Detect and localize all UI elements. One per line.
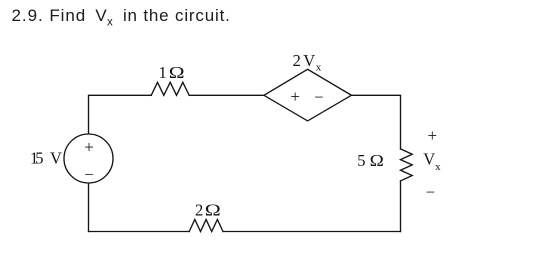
- svg-text:−: −: [426, 182, 435, 201]
- wire bottom right segment: [223, 231, 401, 233]
- svg-text:V: V: [423, 150, 435, 169]
- svg-text:−: −: [314, 88, 323, 107]
- svg-text:+: +: [84, 138, 94, 157]
- svg-text:x: x: [435, 161, 441, 173]
- wire top-right segment: [351, 95, 400, 149]
- svg-text:x: x: [316, 61, 322, 73]
- resistor R3 2-ohm zigzag: [189, 220, 223, 232]
- dependent source U1 diamond: [264, 69, 352, 121]
- svg-text:−: −: [84, 165, 93, 184]
- svg-text:1Ω: 1Ω: [159, 63, 185, 82]
- resistor R2 5-ohm zigzag: [401, 149, 413, 181]
- svg-text:15V: 15V: [30, 149, 62, 168]
- wire right lower segment: [400, 181, 402, 232]
- wire top middle segment: [189, 94, 264, 96]
- svg-text:5Ω: 5Ω: [357, 151, 384, 170]
- svg-text:+: +: [428, 126, 438, 145]
- svg-text:+: +: [290, 87, 300, 106]
- wire top-left segment: [89, 95, 152, 134]
- wire bottom left segment: [89, 231, 190, 233]
- svg-text:2V: 2V: [293, 51, 316, 70]
- svg-text:2.9. FindVxin the circuit.: 2.9. FindVxin the circuit.: [12, 6, 231, 29]
- resistor R1 1-ohm zigzag: [151, 82, 189, 95]
- svg-text:2Ω: 2Ω: [195, 201, 221, 220]
- wire left lower segment: [88, 183, 90, 232]
- voltage source V1 circle: [64, 134, 113, 183]
